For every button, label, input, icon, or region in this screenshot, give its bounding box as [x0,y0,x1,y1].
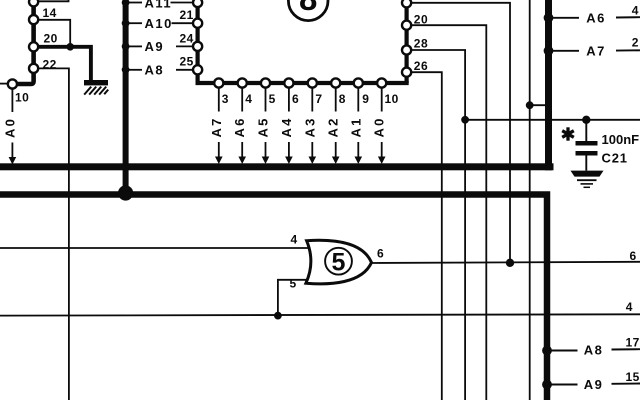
pin label 14 [43,6,57,20]
pin circle U8 right top [402,0,411,7]
svg-text:5: 5 [269,92,276,106]
wire A6 to pin4 right [616,16,640,18]
svg-text:6: 6 [377,246,384,260]
bus2 horizontal thick with corner down [0,195,547,400]
bus entry arrow A2 [332,157,340,165]
pin circle U8 left 21 [193,19,202,28]
svg-text:A7: A7 [209,116,224,137]
svg-text:A9: A9 [584,377,604,392]
svg-text:5: 5 [290,277,297,291]
pin label 5 gate [290,277,297,291]
svg-text:26: 26 [414,59,428,73]
bus entry arrow A5 [262,157,270,165]
wire bottom net to right pin4 [0,314,640,315]
net label A9 [584,377,604,392]
pin circle U8 pin4 [238,78,247,87]
svg-text:6: 6 [292,92,299,106]
pin label 4 right edge [626,300,633,314]
svg-text:10: 10 [15,91,29,105]
node junction input5 on net [274,312,282,320]
wire U8 pin26 down [411,72,441,400]
svg-text:4: 4 [291,233,298,247]
svg-text:2: 2 [632,36,639,50]
svg-text:A1: A1 [348,116,363,137]
ground symbol G2 [571,171,604,188]
pin label 4 [632,3,639,17]
bus entry arrow A0 [378,157,386,165]
wire net A0 vertical [11,89,13,159]
pin label 28 [414,36,428,50]
asterisk mark [562,127,574,140]
net label A8 [145,63,165,78]
bus entry arrow A3 [309,157,317,165]
pin label 17 [626,335,640,349]
wire A6 stub [550,17,579,19]
svg-text:9: 9 [362,92,369,106]
IC U8 left edge [196,0,200,83]
wire gate output net6 [372,262,640,263]
ground symbol G1 hatching [84,87,108,95]
node A8 tap bottom [542,346,552,356]
svg-text:A0: A0 [372,116,387,137]
svg-text:22: 22 [43,57,57,71]
capacitor C21 [576,120,598,171]
wire A8 to pin17 [612,348,640,350]
svg-text:8: 8 [339,92,346,106]
net label A6 rotated [232,116,247,137]
wire A9 row [128,45,193,47]
pin label 2 [632,36,639,50]
node A11 tap [122,0,130,6]
net label A0 rotated [2,117,17,138]
net label A6 [586,11,606,26]
svg-text:A11: A11 [145,0,173,10]
pin circle U8 pin10 [377,78,386,87]
wire A9 to pin15 [612,383,640,385]
wire U8 pin28 down [411,50,465,400]
wire tap to thick rail [530,104,546,106]
bus entry arrow A7 [215,157,223,165]
supply rail vertical thick top right [545,0,552,170]
pin label 15 [626,370,640,384]
pin label 22 [43,57,57,71]
value label 100nF [602,132,640,147]
wire cap rail to right edge [465,119,640,121]
wire A7 to pin2 right [616,49,640,51]
svg-text:20: 20 [44,32,58,46]
svg-text:A7: A7 [586,44,606,59]
pin circle U8 right 26 [402,68,411,77]
pin label 5 [269,92,276,106]
pin label 7 [315,92,322,106]
svg-text:A10: A10 [145,16,173,31]
node capacitor C21 top [582,116,590,124]
wire A8 row [128,69,193,71]
wire net A1 vertical [357,88,359,159]
wire net A2 vertical [335,88,337,159]
node A6 tap [544,13,554,23]
node pin28 net to cap rail [461,116,469,124]
op designator circle 8 [288,0,328,21]
ref label C21 [602,151,628,166]
pin circle 14 [29,15,38,24]
net label A3 rotated [302,116,317,137]
pin label 8 [339,92,346,106]
svg-text:4: 4 [626,300,633,314]
wire net A0b vertical [381,88,383,159]
svg-text:A6: A6 [232,116,247,137]
wire vertical from top edge [529,0,531,400]
svg-text:A2: A2 [326,116,341,137]
left connector column line [18,0,34,84]
svg-text:3: 3 [222,92,229,106]
bus entry arrow A1 [355,157,363,165]
pin label 25 [180,54,194,68]
pin circle top (cut) [29,0,38,6]
svg-text:25: 25 [180,54,194,68]
wire A10 row [128,22,193,24]
pin label 6 [292,92,299,106]
pin label 10 [385,92,399,106]
wire pin14 to junction [39,20,70,47]
net label A7 rotated [209,116,224,137]
pin label 6 right edge [630,249,637,263]
bus1 horizontal thick [0,163,554,170]
gate designator circle 5 [325,248,352,276]
svg-text:15: 15 [626,370,640,384]
pin label 21 [180,8,194,22]
wire net A4 vertical [288,88,290,159]
svg-text:10: 10 [385,92,399,106]
svg-text:20: 20 [414,13,428,27]
svg-text:A5: A5 [256,116,271,137]
or-gate U5 body [306,240,372,284]
node A9 tap [122,43,130,51]
wire net A5 vertical [265,88,267,159]
net label A11 [145,0,173,10]
pin label 4 gate [291,233,298,247]
svg-text:5: 5 [332,248,346,276]
pin circle U8 pin8 [331,78,340,87]
pin circle U8 left 25 [193,65,202,74]
pin circle U8 pin6 [284,78,293,87]
pin label 10 [15,91,29,105]
pin circle U8 right 20 [402,21,411,30]
wire pin20 thick to ground [39,47,91,80]
wire gate input 5 with vertical drop [278,280,309,316]
node A8 tap [122,66,130,74]
pin circle 20 [29,42,38,51]
svg-text:A6: A6 [586,11,606,26]
wire A9 stub [550,384,578,386]
IC U8 bottom edge [196,81,409,85]
IC U8 right edge [405,0,409,83]
pin label 20 [414,13,428,27]
wire left edge stub to pin10 [0,83,8,85]
node junction pin14/pin20 [66,43,74,51]
svg-text:100nF: 100nF [602,132,640,147]
wire pin22 down to bottom edge [39,68,69,400]
svg-text:6: 6 [630,249,637,263]
net label A10 [145,16,173,31]
wire top stub left connector [39,0,69,1]
address bus vertical left [123,0,129,192]
net label A1 rotated [348,116,363,137]
net label A5 rotated [256,116,271,137]
svg-text:21: 21 [180,8,194,22]
node A9 tap bottom [542,380,552,390]
pin circle U8 left A11 [193,0,202,7]
wire A7 stub [550,50,579,52]
node A7 tap [544,46,554,56]
node junction net6 [506,259,514,267]
wire U8 top right pin to node on net6 [411,3,510,263]
svg-text:A8: A8 [584,343,604,358]
svg-text:A4: A4 [279,116,294,137]
pin circle U8 pin7 [308,78,317,87]
pin circle 22 [29,64,38,73]
svg-text:4: 4 [245,92,252,106]
pin label 26 [414,59,428,73]
node A10 tap [122,19,130,27]
svg-text:14: 14 [43,6,57,20]
pin label 9 [362,92,369,106]
svg-text:C21: C21 [602,151,628,166]
net label A7 [586,44,606,59]
wire U8 pin20 down [411,25,486,400]
node big junction on bus2 [118,185,133,200]
pin circle U8 pin5 [261,78,270,87]
net label A0 rotated [372,116,387,137]
svg-text:7: 7 [315,92,322,106]
wire net A3 vertical [311,88,313,159]
wire net A7 vertical [218,88,220,159]
wire A11 row [128,2,193,4]
svg-text:A9: A9 [145,39,165,54]
wire gate input net to pin4 gate [0,247,308,249]
pin label 4 [245,92,252,106]
pin circle U8 pin9 [354,78,363,87]
wire A8 stub [550,350,578,352]
pin label 3 [222,92,229,106]
pin circle 10 [8,79,17,88]
svg-text:A0: A0 [2,117,17,138]
net label A4 rotated [279,116,294,137]
svg-text:8: 8 [299,0,317,17]
svg-text:17: 17 [626,335,640,349]
pin circle U8 pin3 [214,78,223,87]
pin circle U8 left 24 [193,42,202,51]
svg-text:4: 4 [632,3,639,17]
bus entry arrow A6 [238,157,246,165]
svg-text:A8: A8 [145,63,165,78]
wire net A6 vertical [241,88,243,159]
svg-text:24: 24 [180,31,194,45]
net label A8 [584,343,604,358]
pin label 24 [180,31,194,45]
pin label 6 gate [377,246,384,260]
svg-text:28: 28 [414,36,428,50]
bus entry arrow A4 [285,157,293,165]
svg-text:A3: A3 [302,116,317,137]
pin label 20 [44,32,58,46]
ground symbol G1 bar [84,80,108,85]
pin circle U8 right 28 [402,45,411,54]
net label A2 rotated [326,116,341,137]
net label A9 [145,39,165,54]
bus entry arrow A0 [9,157,17,165]
node tap to supply rail [526,101,534,109]
